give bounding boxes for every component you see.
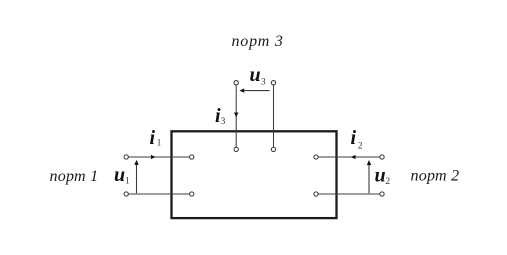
svg-text:порт 2: порт 2	[411, 167, 460, 184]
terminal: port 2 lower outer	[380, 192, 384, 196]
terminal: port 2 upper outer	[380, 155, 384, 159]
multiport network box N	[172, 131, 337, 218]
terminal: port 3 right inner	[271, 147, 275, 151]
terminal: port 2 lower inner	[314, 192, 318, 196]
arrowhead: current i3 into box	[234, 113, 238, 118]
svg-text:1: 1	[125, 177, 130, 187]
svg-text:порт 3: порт 3	[232, 33, 284, 50]
arrow: voltage u3	[245, 90, 270, 92]
wire: port 2 upper lead	[318, 156, 380, 158]
arrowhead: current i2 into box	[351, 155, 356, 159]
terminal: port 3 left outer	[234, 81, 238, 85]
wire: port 3 left lead	[235, 85, 237, 147]
arrow: voltage u2	[368, 164, 370, 193]
svg-text:1: 1	[157, 139, 162, 149]
terminal: port 2 upper inner	[314, 155, 318, 159]
terminal: port 3 left inner	[234, 147, 238, 151]
wire: port 3 right lead	[273, 85, 275, 147]
svg-text:3: 3	[221, 117, 226, 127]
svg-text:i: i	[150, 127, 156, 149]
svg-text:3: 3	[261, 78, 266, 88]
svg-text:порт 1: порт 1	[50, 168, 99, 185]
svg-text:i: i	[351, 127, 357, 149]
arrowhead: current i1 into box	[151, 155, 156, 159]
terminal: port 1 lower outer	[124, 192, 128, 196]
arrow: voltage u1	[136, 164, 138, 194]
svg-text:u: u	[114, 164, 125, 186]
svg-text:u: u	[375, 164, 386, 186]
wire: port 1 upper lead	[128, 156, 189, 158]
wire: port 2 lower lead	[318, 193, 380, 195]
wire: port 1 lower lead	[128, 193, 189, 195]
terminal: port 1 upper inner	[190, 155, 194, 159]
svg-text:2: 2	[385, 177, 390, 187]
terminal: port 1 lower inner	[190, 192, 194, 196]
svg-text:u: u	[250, 64, 261, 86]
terminal: port 1 upper outer	[124, 155, 128, 159]
svg-text:2: 2	[358, 142, 363, 152]
terminal: port 3 right outer	[271, 81, 275, 85]
